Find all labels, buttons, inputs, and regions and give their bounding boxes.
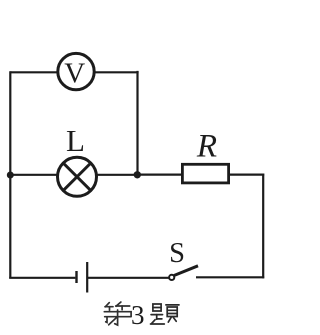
wire top-left horizontal (node to voltmeter) — [10, 71, 58, 73]
svg-text:S: S — [169, 238, 185, 269]
svg-text:R: R — [196, 128, 217, 164]
lamp L symbol — [58, 157, 97, 196]
switch S pivot — [169, 275, 174, 280]
wire node A to lamp — [10, 174, 58, 176]
wire bottom right (corner to switch) — [196, 276, 264, 278]
svg-text:L: L — [66, 123, 85, 158]
wire resistor to right corner — [230, 174, 265, 176]
caption character 题 — [151, 304, 180, 324]
node A junction dot (left) — [7, 172, 14, 179]
wire right branch vertical (top corner down to node B) — [136, 71, 138, 175]
resistor R body — [182, 164, 228, 183]
wire voltmeter to top-right corner — [95, 71, 139, 73]
svg-text:3: 3 — [131, 300, 145, 330]
wire right vertical — [262, 174, 264, 279]
node B junction dot (right) — [134, 171, 141, 178]
switch S lever — [174, 266, 198, 276]
voltmeter U1 circle — [58, 53, 94, 89]
wire left vertical (top corner down to bottom corner) — [9, 71, 11, 278]
caption character 第 — [104, 302, 131, 325]
wire lamp to node B — [96, 174, 137, 176]
wire bottom left (corner to battery) — [9, 277, 75, 279]
battery positive plate (long) — [86, 262, 88, 293]
wire battery to switch — [88, 277, 170, 279]
wire node B to resistor — [137, 174, 182, 176]
battery negative plate (short) — [75, 271, 77, 283]
svg-text:V: V — [64, 58, 85, 90]
